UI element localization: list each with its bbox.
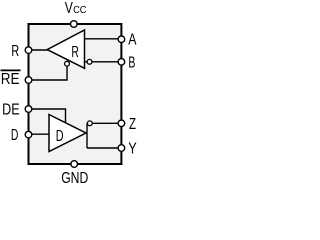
svg-text:R: R	[11, 43, 19, 60]
pin /RE terminal circle	[25, 77, 32, 84]
wire DE enable (pin DE right then down to driver enable)	[29, 109, 66, 125]
receiver enable bubble (inverting, on lower edge)	[65, 61, 70, 66]
wire R output (pin R to receiver apex)	[29, 49, 49, 51]
svg-text:RE: RE	[1, 71, 20, 88]
pin A terminal circle	[118, 36, 125, 43]
svg-text:D: D	[11, 127, 19, 144]
svg-text:R: R	[71, 44, 79, 61]
svg-text:B: B	[128, 55, 135, 72]
pin R terminal circle	[25, 47, 32, 54]
wire D input (pin D to driver base)	[29, 133, 51, 135]
svg-text:D: D	[56, 128, 64, 145]
svg-text:DE: DE	[2, 102, 20, 119]
pin Y terminal circle	[118, 145, 125, 152]
svg-text:Y: Y	[128, 140, 137, 157]
wire driver output branch (vertical from Z bubble down to Y line)	[86, 123, 88, 148]
overline of RE	[1, 69, 21, 71]
wire /RE enable (pin RE right then up to receiver enable bubble)	[29, 64, 68, 80]
receiver inverting input bubble (B side)	[87, 59, 92, 64]
driver amplifier D (triangle pointing right)	[49, 115, 86, 152]
wire B input (receiver inverting bubble to pin B)	[85, 61, 122, 63]
receiver amplifier R (triangle pointing left)	[47, 30, 84, 68]
svg-text:GND: GND	[61, 170, 88, 185]
wire Y output (branch to pin Y)	[87, 147, 121, 149]
svg-text:Z: Z	[129, 116, 136, 133]
pin DE terminal circle	[25, 106, 32, 113]
driver inverting output bubble (Z side)	[87, 121, 92, 126]
pin Vcc terminal circle	[71, 21, 78, 28]
pin Z terminal circle	[118, 120, 125, 127]
svg-text:CC: CC	[73, 4, 87, 16]
pin GND terminal circle	[71, 161, 78, 168]
pin B terminal circle	[118, 59, 125, 66]
transceiver IC body U1	[29, 24, 122, 164]
wire A input (receiver base to pin A)	[85, 38, 122, 40]
svg-text:V: V	[65, 0, 73, 17]
svg-text:A: A	[128, 32, 136, 49]
wire Z output (bubble to pin Z)	[90, 122, 122, 124]
pin D terminal circle	[25, 131, 32, 138]
